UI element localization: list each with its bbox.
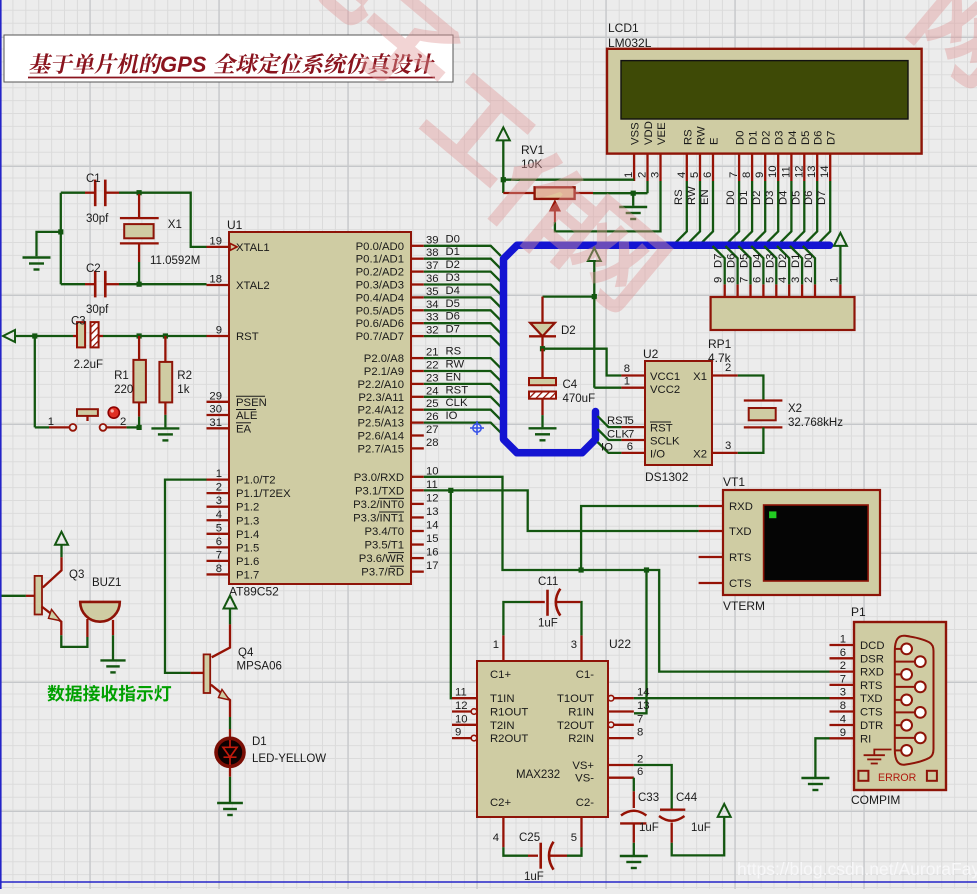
svg-text:13: 13	[426, 506, 439, 518]
svg-text:3: 3	[571, 639, 577, 651]
svg-text:10: 10	[426, 465, 439, 477]
svg-text:R2IN: R2IN	[568, 733, 594, 745]
svg-text:RS: RS	[682, 129, 694, 145]
svg-text:26: 26	[426, 411, 439, 423]
svg-text:7: 7	[216, 549, 222, 561]
svg-text:D7: D7	[816, 191, 828, 205]
svg-text:14: 14	[426, 520, 439, 532]
svg-text:D6: D6	[813, 131, 825, 145]
svg-text:E: E	[709, 137, 721, 145]
svg-text:P2.2/A10: P2.2/A10	[358, 379, 404, 391]
svg-text:X1: X1	[693, 371, 707, 383]
svg-text:VDD: VDD	[643, 121, 655, 145]
svg-text:D5: D5	[800, 131, 812, 145]
svg-text:D5: D5	[739, 254, 751, 268]
svg-text:D6: D6	[803, 191, 815, 205]
svg-text:RST: RST	[607, 415, 630, 427]
svg-text:D1: D1	[748, 131, 760, 145]
svg-text:VTERM: VTERM	[723, 599, 765, 613]
svg-text:5: 5	[216, 522, 222, 534]
svg-text:4: 4	[216, 509, 222, 521]
svg-text:33: 33	[426, 312, 439, 324]
svg-text:D5: D5	[790, 191, 802, 205]
svg-text:COMPIM: COMPIM	[851, 793, 900, 807]
svg-text:14: 14	[637, 687, 650, 699]
svg-text:36: 36	[426, 273, 439, 285]
svg-text:C44: C44	[676, 792, 698, 804]
svg-text:VT1: VT1	[723, 475, 745, 489]
svg-text:P0.5/AD5: P0.5/AD5	[356, 305, 404, 317]
svg-text:7: 7	[728, 172, 740, 178]
svg-text:D4: D4	[787, 131, 799, 145]
svg-text:5: 5	[689, 172, 701, 178]
svg-text:P0.0/AD0: P0.0/AD0	[356, 241, 404, 253]
svg-text:ERROR: ERROR	[878, 772, 917, 784]
svg-text:D0: D0	[735, 131, 747, 145]
svg-text:1: 1	[828, 277, 840, 283]
svg-text:RW: RW	[446, 359, 465, 371]
svg-text:R2OUT: R2OUT	[490, 733, 528, 745]
svg-text:D5: D5	[446, 298, 460, 310]
svg-text:RST: RST	[236, 331, 259, 343]
svg-text:1: 1	[493, 639, 499, 651]
svg-text:D3: D3	[446, 272, 460, 284]
svg-text:XTAL2: XTAL2	[236, 280, 270, 292]
svg-text:P1.6: P1.6	[236, 556, 259, 568]
svg-text:DS1302: DS1302	[645, 470, 689, 484]
svg-text:RTS: RTS	[729, 552, 752, 564]
svg-text:11.0592M: 11.0592M	[150, 255, 200, 267]
svg-text:T1IN: T1IN	[490, 693, 514, 705]
svg-text:2: 2	[840, 660, 846, 672]
svg-text:P1.0/T2: P1.0/T2	[236, 475, 276, 487]
svg-text:P3.1/TXD: P3.1/TXD	[355, 485, 404, 497]
svg-text:X2: X2	[788, 403, 802, 415]
svg-text:10: 10	[455, 713, 468, 725]
svg-text:T2OUT: T2OUT	[557, 720, 594, 732]
svg-text:29: 29	[209, 390, 222, 402]
svg-text:2: 2	[637, 172, 649, 178]
svg-text:D2: D2	[761, 131, 773, 145]
svg-text:19: 19	[209, 235, 222, 247]
svg-text:Q4: Q4	[238, 647, 254, 659]
svg-text:XTAL1: XTAL1	[236, 242, 270, 254]
svg-text:GPS: GPS	[160, 52, 207, 77]
svg-text:P1: P1	[851, 605, 866, 619]
svg-text:37: 37	[426, 260, 439, 272]
svg-text:CLK: CLK	[607, 429, 629, 441]
svg-text:39: 39	[426, 234, 439, 246]
svg-text:LED-YELLOW: LED-YELLOW	[252, 753, 326, 765]
svg-text:D4: D4	[751, 254, 763, 268]
svg-text:11: 11	[426, 479, 438, 491]
svg-text:7: 7	[637, 713, 643, 725]
svg-text:30: 30	[209, 404, 222, 416]
svg-text:U1: U1	[227, 218, 243, 232]
svg-text:9: 9	[754, 172, 766, 178]
svg-text:X2: X2	[693, 449, 707, 461]
svg-text:1k: 1k	[177, 384, 189, 396]
svg-text:VEE: VEE	[656, 122, 668, 145]
svg-text:Q3: Q3	[69, 569, 84, 581]
svg-text:D2: D2	[446, 259, 460, 271]
svg-text:IO: IO	[446, 410, 458, 422]
svg-text:4: 4	[777, 277, 789, 283]
svg-text:1uF: 1uF	[639, 822, 659, 834]
svg-text:BUZ1: BUZ1	[92, 577, 121, 589]
svg-text:5: 5	[571, 832, 577, 844]
svg-text:LM032L: LM032L	[608, 36, 652, 50]
svg-text:P2.6/A14: P2.6/A14	[358, 431, 404, 443]
svg-text:D7: D7	[446, 324, 460, 336]
svg-text:P3.5/T1: P3.5/T1	[364, 540, 404, 552]
svg-text:P1.3: P1.3	[236, 515, 259, 527]
svg-text:D3: D3	[764, 254, 776, 268]
svg-text:14: 14	[819, 165, 831, 178]
svg-text:32: 32	[426, 325, 439, 337]
svg-text:1uF: 1uF	[691, 822, 711, 834]
svg-text:9: 9	[216, 325, 222, 337]
svg-text:7: 7	[628, 429, 634, 441]
svg-text:2: 2	[725, 362, 731, 374]
svg-text:MPSA06: MPSA06	[237, 661, 282, 673]
svg-text:4: 4	[493, 832, 499, 844]
svg-text:IO: IO	[601, 442, 613, 454]
svg-text:P0.6/AD6: P0.6/AD6	[356, 318, 404, 330]
svg-text:D1: D1	[446, 246, 460, 258]
svg-text:1: 1	[216, 468, 222, 480]
svg-text:1uF: 1uF	[538, 618, 558, 630]
svg-text:P0.3/AD3: P0.3/AD3	[356, 280, 404, 292]
svg-text:C2-: C2-	[576, 797, 594, 809]
svg-text:6: 6	[840, 647, 846, 659]
svg-text:1: 1	[48, 416, 54, 428]
svg-text:4: 4	[840, 714, 846, 726]
svg-text:R1IN: R1IN	[568, 707, 594, 719]
svg-text:9: 9	[840, 727, 846, 739]
svg-text:D2: D2	[751, 191, 763, 205]
svg-text:R2: R2	[177, 370, 192, 382]
svg-text:P3.0/RXD: P3.0/RXD	[354, 472, 404, 484]
svg-text:D7: D7	[826, 131, 838, 145]
svg-text:RW: RW	[696, 126, 708, 145]
svg-text:30pf: 30pf	[86, 213, 109, 225]
svg-text:8: 8	[637, 727, 643, 739]
svg-text:ALE: ALE	[236, 410, 258, 422]
svg-text:P3.6/WR: P3.6/WR	[359, 553, 404, 565]
svg-text:6: 6	[702, 172, 714, 178]
svg-text:25: 25	[426, 398, 439, 410]
svg-text:VSS: VSS	[630, 122, 642, 145]
svg-text:VS+: VS+	[572, 760, 594, 772]
svg-text:16: 16	[426, 547, 439, 559]
svg-text:8: 8	[741, 172, 753, 178]
svg-text:U2: U2	[643, 347, 659, 361]
svg-text:P1.2: P1.2	[236, 502, 259, 514]
svg-text:D0: D0	[446, 233, 460, 245]
svg-text:EN: EN	[699, 189, 711, 205]
svg-text:2: 2	[216, 482, 222, 494]
svg-text:D3: D3	[764, 191, 776, 205]
svg-text:R1OUT: R1OUT	[490, 707, 528, 719]
svg-text:https://blog.csdn.net/AuroraFa: https://blog.csdn.net/AuroraFaye	[737, 859, 977, 879]
svg-text:RV1: RV1	[521, 143, 544, 157]
svg-text:22: 22	[426, 360, 439, 372]
svg-text:CTS: CTS	[860, 707, 883, 719]
svg-text:C4: C4	[563, 379, 578, 391]
svg-text:DCD: DCD	[860, 640, 884, 652]
svg-text:P3.2/INT0: P3.2/INT0	[353, 499, 404, 511]
svg-text:13: 13	[637, 700, 650, 712]
svg-text:C25: C25	[519, 832, 540, 844]
svg-text:C33: C33	[638, 792, 659, 804]
svg-text:P0.7/AD7: P0.7/AD7	[356, 331, 404, 343]
svg-text:12: 12	[426, 492, 439, 504]
svg-text:P3.7/RD: P3.7/RD	[361, 567, 404, 579]
svg-text:D6: D6	[726, 254, 738, 268]
svg-text:C11: C11	[538, 576, 558, 588]
svg-text:P2.1/A9: P2.1/A9	[364, 366, 404, 378]
svg-text:35: 35	[426, 286, 439, 298]
svg-text:C2: C2	[86, 263, 101, 275]
svg-text:P1.1/T2EX: P1.1/T2EX	[236, 488, 291, 500]
svg-text:P2.7/A15: P2.7/A15	[358, 443, 404, 455]
svg-text:6: 6	[216, 536, 222, 548]
svg-text:D4: D4	[446, 285, 460, 297]
svg-text:8: 8	[840, 700, 846, 712]
svg-text:U22: U22	[609, 637, 631, 651]
svg-text:28: 28	[426, 437, 439, 449]
svg-text:RI: RI	[860, 733, 871, 745]
svg-text:31: 31	[209, 417, 222, 429]
svg-text:11: 11	[455, 687, 467, 699]
svg-text:C1+: C1+	[490, 669, 511, 681]
svg-text:D7: D7	[713, 254, 725, 268]
svg-text:P2.4/A12: P2.4/A12	[358, 405, 404, 417]
svg-text:TXD: TXD	[729, 526, 752, 538]
svg-text:TXD: TXD	[860, 693, 883, 705]
svg-text:RTS: RTS	[860, 680, 883, 692]
svg-text:5: 5	[764, 277, 776, 283]
svg-text:LCD1: LCD1	[608, 21, 639, 35]
svg-text:13: 13	[806, 165, 818, 178]
svg-text:27: 27	[426, 424, 439, 436]
svg-text:D0: D0	[803, 254, 815, 268]
svg-text:T1OUT: T1OUT	[557, 693, 594, 705]
svg-text:C1-: C1-	[576, 669, 594, 681]
svg-text:CLK: CLK	[446, 397, 468, 409]
svg-text:2: 2	[803, 277, 815, 283]
svg-text:11: 11	[780, 166, 792, 178]
svg-text:8: 8	[726, 277, 738, 283]
svg-text:RW: RW	[686, 186, 698, 205]
svg-text:P2.0/A8: P2.0/A8	[364, 353, 404, 365]
svg-text:RST: RST	[650, 423, 673, 435]
svg-text:P0.1/AD1: P0.1/AD1	[356, 254, 404, 266]
svg-text:D1: D1	[790, 254, 802, 268]
svg-text:9: 9	[713, 277, 725, 283]
svg-text:9: 9	[455, 727, 461, 739]
svg-text:12: 12	[455, 700, 468, 712]
svg-text:P0.4/AD4: P0.4/AD4	[356, 292, 404, 304]
svg-text:EA: EA	[236, 423, 252, 435]
svg-text:17: 17	[426, 560, 439, 572]
svg-text:24: 24	[426, 385, 439, 397]
svg-text:3: 3	[650, 172, 662, 178]
svg-text:D1: D1	[252, 736, 267, 748]
svg-text:VCC1: VCC1	[650, 371, 680, 383]
svg-text:DSR: DSR	[860, 653, 884, 665]
svg-text:6: 6	[627, 441, 633, 453]
svg-text:D1: D1	[738, 191, 750, 205]
svg-text:7: 7	[840, 673, 846, 685]
svg-text:3: 3	[790, 277, 802, 283]
svg-text:I/O: I/O	[650, 449, 665, 461]
svg-text:D2: D2	[777, 254, 789, 268]
svg-text:2.2uF: 2.2uF	[74, 359, 103, 371]
svg-text:P1.7: P1.7	[236, 569, 259, 581]
svg-text:MAX232: MAX232	[516, 769, 560, 781]
svg-text:18: 18	[209, 274, 222, 286]
svg-text:12: 12	[793, 165, 805, 178]
svg-text:RP1: RP1	[708, 337, 732, 351]
svg-text:30pf: 30pf	[86, 304, 109, 316]
svg-text:D3: D3	[774, 131, 786, 145]
svg-text:CTS: CTS	[729, 578, 752, 590]
svg-text:RS: RS	[673, 189, 685, 205]
svg-text:RST: RST	[446, 384, 469, 396]
svg-text:220: 220	[114, 384, 133, 396]
svg-text:P1.4: P1.4	[236, 529, 259, 541]
svg-text:D6: D6	[446, 311, 460, 323]
svg-text:5: 5	[628, 415, 634, 427]
svg-text:34: 34	[426, 299, 439, 311]
svg-text:RXD: RXD	[729, 501, 753, 513]
svg-text:3: 3	[840, 687, 846, 699]
svg-text:C1: C1	[86, 173, 101, 185]
svg-text:4: 4	[676, 172, 688, 178]
svg-text:6: 6	[751, 277, 763, 283]
svg-text:1: 1	[840, 634, 846, 646]
svg-text:P2.3/A11: P2.3/A11	[358, 392, 404, 404]
svg-text:D0: D0	[725, 191, 737, 205]
svg-text:VS-: VS-	[575, 773, 594, 785]
svg-text:1: 1	[623, 172, 635, 178]
svg-text:2: 2	[637, 754, 643, 766]
svg-text:2: 2	[120, 416, 126, 428]
svg-text:23: 23	[426, 372, 439, 384]
svg-text:R1: R1	[114, 370, 129, 382]
svg-text:P3.3/INT1: P3.3/INT1	[353, 512, 404, 524]
svg-text:6: 6	[637, 766, 643, 778]
svg-text:RXD: RXD	[860, 667, 884, 679]
svg-text:C3: C3	[71, 316, 86, 328]
svg-text:21: 21	[426, 347, 439, 359]
svg-text:AT89C52: AT89C52	[229, 585, 279, 599]
svg-text:1: 1	[624, 376, 630, 388]
svg-text:38: 38	[426, 247, 439, 259]
svg-text:3: 3	[725, 440, 731, 452]
svg-text:32.768kHz: 32.768kHz	[788, 417, 843, 429]
svg-text:PSEN: PSEN	[236, 397, 267, 409]
svg-text:C2+: C2+	[490, 797, 511, 809]
svg-text:7: 7	[739, 277, 751, 283]
svg-text:D2: D2	[561, 325, 576, 337]
svg-text:RS: RS	[446, 346, 462, 358]
svg-text:10: 10	[767, 165, 779, 178]
svg-text:T2IN: T2IN	[490, 720, 514, 732]
svg-text:470uF: 470uF	[563, 393, 596, 405]
svg-text:8: 8	[624, 363, 630, 375]
svg-text:15: 15	[426, 533, 439, 545]
svg-text:P0.2/AD2: P0.2/AD2	[356, 267, 404, 279]
svg-text:D4: D4	[777, 191, 789, 205]
svg-text:8: 8	[216, 563, 222, 575]
svg-text:SCLK: SCLK	[650, 436, 680, 448]
svg-text:P2.5/A13: P2.5/A13	[358, 418, 404, 430]
svg-text:P3.4/T0: P3.4/T0	[364, 526, 404, 538]
svg-text:DTR: DTR	[860, 720, 883, 732]
svg-text:VCC2: VCC2	[650, 384, 680, 396]
svg-text:P1.5: P1.5	[236, 542, 259, 554]
svg-text:3: 3	[216, 495, 222, 507]
svg-text:X1: X1	[168, 219, 182, 231]
svg-text:EN: EN	[446, 371, 462, 383]
